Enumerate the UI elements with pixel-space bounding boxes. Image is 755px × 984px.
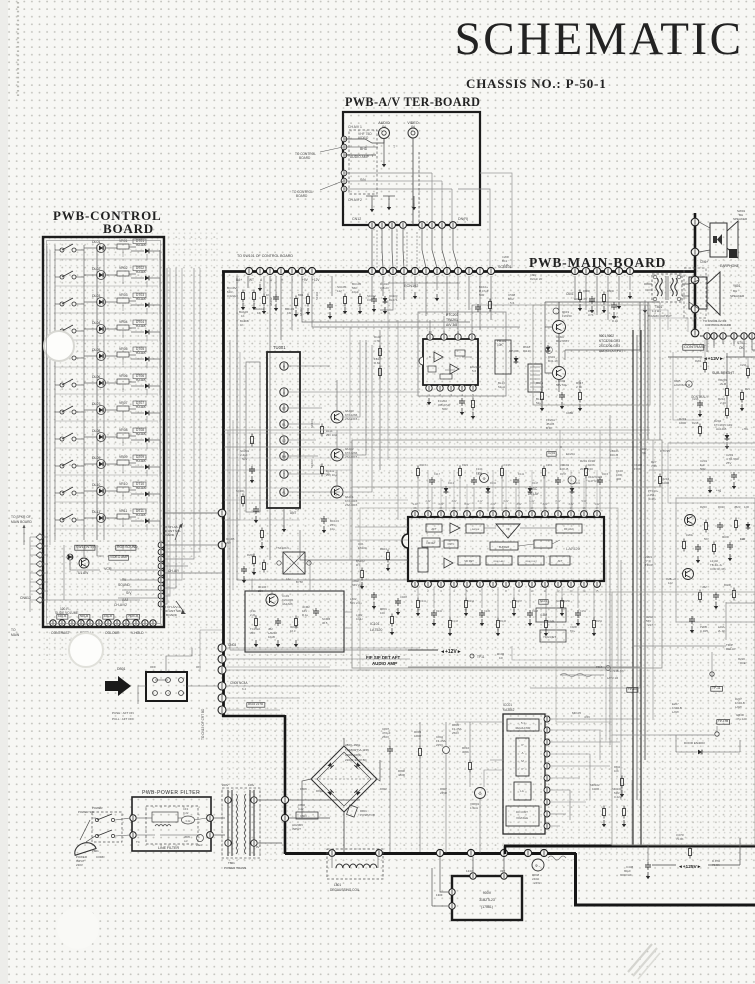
svg-text:480R: 480R (398, 773, 405, 777)
svg-text:SC104: SC104 (310, 419, 314, 428)
svg-text:100R: 100R (414, 734, 422, 738)
fuse R619 (553, 308, 559, 314)
svg-text:FB103: FB103 (358, 546, 367, 550)
transistor U1 A/V (79, 558, 89, 568)
capacitor 2A+R (197, 835, 204, 842)
svg-text:245R: 245R (440, 791, 447, 795)
svg-text:TD+: TD+ (570, 629, 576, 633)
svg-text:4.1V: 4.1V (478, 500, 483, 503)
svg-text:56V 50μ: 56V 50μ (556, 383, 568, 387)
svg-text:R02R: R02R (724, 583, 731, 587)
svg-text:1K: 1K (287, 311, 291, 315)
svg-text:C88R: C88R (566, 411, 573, 415)
transistor Q601 (553, 321, 566, 334)
svg-text:L/2W 13: L/2W 13 (607, 676, 618, 680)
svg-text:C216: C216 (692, 397, 699, 401)
svg-text:SC2R1: SC2R1 (236, 489, 245, 493)
main board lower-left edge (284, 715, 287, 854)
transistor Q602 (553, 367, 566, 380)
svg-text:280V~396L: 280V~396L (345, 743, 361, 747)
svg-text:DOOR EN4003: DOOR EN4003 (684, 741, 705, 745)
bottom right extra wires (612, 734, 715, 736)
svg-text:40R: 40R (616, 477, 621, 481)
svg-text:R24μF 2R: R24μF 2R (530, 277, 542, 281)
svg-text:VR05: VR05 (119, 347, 128, 351)
svg-text:MAIN BOARD: MAIN BOARD (11, 520, 33, 524)
svg-text:16.3: 16.3 (290, 629, 296, 633)
bridge dashed center line (311, 778, 377, 780)
svg-text:T4: T4 (136, 840, 140, 844)
svg-text:TP-1: TP-1 (476, 471, 483, 475)
svg-text:TO: TO (11, 628, 16, 632)
svg-text:VR03: VR03 (119, 293, 128, 297)
svg-text:9001,9002: 9001,9002 (599, 334, 614, 338)
svg-text:VR09: VR09 (119, 455, 128, 459)
thick bus right descent (574, 853, 577, 906)
wires DB01 (166, 648, 192, 672)
svg-text:C1R8: C1R8 (400, 595, 407, 599)
svg-text:C601: C601 (566, 292, 574, 296)
sync cluster components (705, 520, 707, 523)
svg-text:2SA1015: 2SA1015 (345, 455, 358, 459)
svg-text:TP11: TP11 (477, 655, 485, 659)
svg-text:0.9V: 0.9V (465, 503, 470, 506)
svg-text:3.9V: 3.9V (517, 503, 522, 506)
svg-text:RF AGC: RF AGC (564, 527, 574, 531)
grounds inside A/V board (371, 205, 373, 209)
control board inner rails (96, 245, 98, 540)
svg-text:POSISTOR: POSISTOR (360, 813, 375, 817)
dense components above IC (417, 466, 419, 469)
svg-text:10μ: 10μ (330, 527, 335, 531)
speaker Y601 (689, 277, 707, 309)
svg-text:2200F 30HV BC: 2200F 30HV BC (345, 758, 368, 762)
svg-text:6.2: 6.2 (242, 687, 247, 691)
mid horizontal bus wires (224, 429, 650, 431)
wires from IC801 pins (550, 718, 640, 720)
switch SW11 (60, 518, 64, 522)
transformer T801 secondary rail (249, 790, 251, 856)
svg-text:25V 10μ: 25V 10μ (326, 473, 337, 477)
control board bottom terminals (50, 620, 56, 626)
switch SW04 (60, 329, 64, 333)
svg-text:DL03: DL03 (92, 294, 100, 298)
svg-text:50V: 50V (242, 457, 247, 461)
svg-text:R201 103R: R201 103R (580, 459, 596, 463)
LA7520 left-side extra parts (387, 550, 389, 553)
svg-text:AL: AL (282, 490, 286, 494)
svg-text:R157: R157 (560, 472, 567, 476)
discriminator T102 (540, 630, 566, 642)
connector CCN101 row A (245, 267, 252, 274)
svg-text:124V: 124V (466, 869, 473, 873)
svg-text:MR-05: MR-05 (572, 711, 581, 715)
thick ground bus bottom (285, 852, 576, 855)
svg-text:900V/HF: 900V/HF (620, 873, 632, 877)
bridge diodes (327, 762, 333, 768)
svg-text:B: B (283, 364, 285, 368)
svg-text:D806: D806 (300, 787, 307, 791)
LED DL12 (67, 554, 73, 560)
wire arrow to main board (23, 526, 25, 545)
svg-text:112: 112 (337, 289, 342, 293)
svg-text:100R: 100R (662, 481, 670, 485)
LA7520 bottom pins (412, 581, 419, 588)
thick bus upper branch (504, 845, 755, 848)
filter internal leads (137, 817, 152, 819)
audio section gray frame (533, 305, 650, 405)
svg-text:C.1R5: C.1R5 (700, 629, 708, 633)
pot R848 on bus (532, 859, 544, 871)
long wires to LA7520 region (300, 530, 408, 560)
wires bus to jacks (699, 222, 710, 228)
svg-text:A/V 3/8: A/V 3/8 (446, 323, 457, 327)
svg-text:R147: R147 (532, 481, 539, 485)
filter pins (130, 815, 136, 821)
vertical bus wires center (379, 330, 381, 470)
svg-text:TS1800(T)A-1156: TS1800(T)A-1156 (345, 748, 369, 752)
IC801 outline (503, 714, 545, 834)
svg-text:ANT: ANT (290, 511, 296, 515)
IC801 right pins (544, 716, 550, 722)
svg-text:RELAY: RELAY (726, 647, 736, 651)
svg-text:900V: 900V (483, 891, 492, 895)
svg-text:10K: 10K (614, 769, 619, 773)
svg-text:M: M (688, 383, 690, 387)
svg-text:A: A (521, 751, 523, 755)
svg-text:INPUT: INPUT (292, 827, 301, 831)
svg-text:Y601: Y601 (733, 284, 741, 288)
components row y560-580 left (253, 554, 255, 557)
switch SW08 (60, 437, 64, 441)
coil L601 big (495, 340, 511, 374)
wires RF box (251, 580, 253, 591)
wire +12V rail under IC (408, 666, 640, 668)
svg-text:4.7K: 4.7K (588, 313, 594, 317)
svg-text:R4.2K: R4.2K (523, 349, 531, 353)
RF box components (255, 616, 257, 619)
svg-text:10K: 10K (497, 343, 504, 347)
svg-text:JBZ: JBZ (702, 585, 707, 589)
pins on board edge power (281, 796, 288, 803)
X201 bottom pins (426, 385, 432, 391)
svg-text:P: P (521, 743, 523, 747)
edge shading strip (0, 0, 8, 984)
transformer T801 primary rail (227, 790, 229, 856)
svg-text:ECN102: ECN102 (404, 284, 418, 288)
svg-text:3.4V: 3.4V (569, 503, 574, 506)
svg-text:50R: 50R (700, 467, 706, 471)
svg-text:C801+C8(4): C801+C8(4) (345, 753, 361, 757)
svg-text:R.62: R.62 (374, 361, 380, 365)
bridge rectifier D801 (311, 746, 377, 812)
left edge faint margin line (17, 2, 19, 98)
connector CN05 pins (218, 682, 226, 690)
svg-text:VIDEO AFC: VIDEO AFC (493, 560, 505, 563)
svg-text:(0.47μ: (0.47μ (648, 497, 656, 501)
components below LA7520 (417, 598, 419, 601)
svg-text:PUSH : AFT ON: PUSH : AFT ON (112, 711, 134, 715)
svg-text:R148: R148 (532, 610, 539, 613)
svg-text:R.1μ: R.1μ (302, 613, 308, 617)
main board top edge (222, 270, 695, 273)
svg-text:DL07: DL07 (92, 402, 100, 406)
svg-text:D802: D802 (380, 787, 387, 791)
svg-text:0.22: 0.22 (186, 820, 191, 823)
svg-text:5.1: 5.1 (521, 721, 525, 725)
transistor Q104 (331, 449, 343, 461)
svg-text:TP-11: TP-11 (712, 686, 721, 690)
transformer T801 dashed frame (222, 788, 260, 858)
svg-text:2.2K: 2.2K (720, 401, 726, 405)
svg-text:DB01: DB01 (117, 667, 126, 671)
svg-text:TU001: TU001 (273, 345, 286, 350)
svg-text:BOARD: BOARD (103, 221, 154, 236)
svg-text:LINE FILTER: LINE FILTER (158, 846, 180, 850)
boxed label CONTRAST (683, 345, 704, 351)
svg-text:AUDIO AMP: AUDIO AMP (372, 661, 397, 666)
svg-text:R601 217R: R601 217R (248, 702, 264, 706)
svg-text:9V: 9V (256, 845, 260, 849)
svg-text:2SA1015: 2SA1015 (345, 417, 358, 421)
wires right column (726, 353, 728, 386)
pins on audio bus (691, 218, 699, 226)
svg-text:V-HOLD: V-HOLD (131, 631, 144, 635)
svg-text:R142: R142 (436, 610, 443, 613)
svg-text:VR01: VR01 (119, 239, 128, 243)
svg-text:3.8V: 3.8V (452, 500, 457, 503)
svg-text:WT: WT (249, 278, 254, 282)
svg-text:R121: R121 (462, 463, 469, 467)
svg-text:QB-2V: QB-2V (380, 286, 389, 290)
wires descending from rows (236, 276, 238, 350)
svg-text:500-R: 500-R (80, 614, 89, 618)
svg-text:TO CN15 OF CRT BD: TO CN15 OF CRT BD (201, 708, 205, 740)
svg-text:ICC01: ICC01 (503, 703, 512, 707)
svg-text:5.6: 5.6 (472, 369, 477, 373)
boxed TP-10 (627, 688, 638, 693)
svg-text:R604: R604 (588, 309, 595, 313)
svg-text:Φ: Φ (478, 791, 481, 796)
contrast feed wires (673, 352, 700, 420)
A/V board wiring (345, 139, 384, 143)
svg-text:BOARD: BOARD (166, 613, 178, 617)
svg-text:C2R: C2R (740, 537, 745, 541)
svg-text:DEGAUSSING COIL: DEGAUSSING COIL (330, 888, 360, 892)
svg-text:TRUP: TRUP (645, 563, 653, 567)
svg-text:TO SW101 OF CONTROL BOARD: TO SW101 OF CONTROL BOARD (237, 254, 293, 258)
svg-text:100R: 100R (679, 421, 687, 425)
sync cluster frame (676, 498, 755, 622)
svg-text:6.2V: 6.2V (504, 500, 509, 503)
switch DB01 body (146, 672, 187, 701)
svg-text:47μ 1AF: 47μ 1AF (736, 717, 747, 721)
svg-text:250V: 250V (452, 731, 459, 735)
svg-text:SW1 ENTER: SW1 ENTER (76, 545, 96, 549)
gray wire trip relay (632, 645, 726, 647)
control board LED bus (83, 245, 85, 540)
svg-text:10μF: 10μF (352, 290, 359, 294)
svg-text:LA: LA (286, 577, 290, 581)
bus line y433 (224, 432, 650, 434)
A/V board outline (343, 112, 480, 225)
svg-text:24W: 24W (534, 881, 540, 885)
wires tuner pins to right (289, 365, 330, 367)
switch SW05 (60, 356, 64, 360)
svg-text:DL09: DL09 (92, 456, 100, 460)
transistor Q105 (331, 486, 343, 498)
svg-text:R131: R131 (490, 481, 497, 485)
svg-text:LG: LG (282, 438, 287, 442)
svg-text:50R: 50R (479, 293, 484, 297)
svg-text:HA141B: HA141B (716, 427, 727, 431)
svg-text:DL08: DL08 (92, 429, 100, 433)
svg-text:L/2: L/2 (184, 839, 188, 843)
svg-text:BUFFER: BUFFER (499, 546, 509, 549)
transformer T601 (652, 274, 682, 302)
svg-text:SCHEMATIC: SCHEMATIC (455, 13, 744, 65)
svg-text:LA7520: LA7520 (566, 546, 581, 551)
wires 900V box (440, 857, 448, 892)
wires below control-link row (706, 340, 708, 352)
svg-text:10K-B: 10K-B (560, 467, 568, 471)
left mid vertical bundle (227, 430, 229, 560)
degauss plugs (329, 850, 336, 857)
svg-text:C145: C145 (484, 610, 491, 613)
svg-text:VR07: VR07 (119, 401, 128, 405)
svg-text:35V: 35V (250, 631, 255, 635)
svg-text:IC101: IC101 (370, 622, 380, 626)
svg-text:CH-A/V2: CH-A/V2 (114, 603, 127, 607)
svg-text:225V: 225V (436, 743, 443, 747)
svg-text:F73K: F73K (634, 467, 641, 471)
punch hole bottom (57, 907, 99, 949)
svg-text:BY58: BY58 (296, 580, 303, 584)
svg-text:BHD: BHD (360, 147, 368, 151)
control board outline (43, 237, 164, 627)
svg-text:SF102: SF102 (315, 291, 319, 300)
svg-text:AUDIO AMP: AUDIO AMP (350, 155, 370, 159)
svg-text:AFT: AFT (558, 560, 563, 563)
svg-text:2SC3206-GR3: 2SC3206-GR3 (599, 344, 620, 348)
svg-text:U1 A/V: U1 A/V (78, 571, 89, 575)
connector CN612 pin column (36, 534, 44, 540)
svg-text:STILL: STILL (737, 341, 746, 345)
diode D601 (547, 345, 549, 347)
svg-text:TFA201: TFA201 (446, 318, 458, 322)
svg-text:1.2kΩ: 1.2kΩ (470, 806, 479, 810)
svg-text:0.22: 0.22 (183, 811, 189, 815)
wire down to TP-11 (711, 652, 713, 680)
IF section frame (352, 440, 662, 668)
arrow down-right (176, 601, 184, 612)
svg-text:AGC: AGC (530, 487, 538, 491)
punch hole top (44, 331, 74, 361)
svg-text:PWB-A/V TER-BOARD: PWB-A/V TER-BOARD (345, 95, 480, 109)
boxed TP-11 (711, 686, 723, 691)
svg-text:R.1μ: R.1μ (612, 319, 618, 323)
svg-text:IN: IN (382, 125, 386, 129)
svg-text:D113: D113 (448, 481, 455, 485)
pot boxes above terminals (57, 615, 68, 620)
tuner antenna terminal (283, 508, 285, 525)
svg-text:VIDEO AMP: VIDEO AMP (110, 555, 129, 559)
svg-text:4.7K: 4.7K (374, 339, 380, 343)
wires filter-transformer (214, 817, 225, 819)
svg-text:CONTRAST: CONTRAST (684, 344, 707, 349)
crystal X201b (547, 452, 556, 457)
svg-text:VIDEO DET: VIDEO DET (525, 561, 537, 563)
svg-text:BL: BL (282, 422, 286, 426)
svg-text:CH A/V 1: CH A/V 1 (348, 125, 362, 129)
svg-text:2.3V: 2.3V (426, 500, 431, 503)
op-amp U201 box (423, 339, 478, 385)
gray routing wires center (224, 519, 300, 521)
svg-text:R21: R21 (745, 387, 750, 391)
svg-text:VR11: VR11 (119, 509, 127, 513)
svg-text:L/2W 82R: L/2W 82R (674, 383, 687, 387)
svg-text:C151: C151 (546, 463, 553, 467)
connector row C (571, 267, 578, 274)
svg-text:1.9V: 1.9V (595, 503, 600, 506)
svg-text:D: D (560, 445, 562, 449)
svg-text:JB23: JB23 (734, 505, 741, 509)
svg-text:JB05: JB05 (184, 835, 190, 839)
svg-text:R020: R020 (718, 505, 725, 509)
svg-text:R0E: R0E (740, 661, 746, 665)
svg-text:9C1R5: 9C1R5 (226, 537, 235, 541)
pins on ground bus (436, 849, 443, 856)
connector ECN102 row B (368, 267, 375, 274)
svg-text:DL04: DL04 (92, 321, 100, 325)
svg-text:P TP15: P TP15 (660, 449, 670, 453)
svg-text:D147: D147 (516, 600, 523, 603)
svg-text:IN: IN (411, 125, 415, 129)
svg-text:TP-17B: TP-17B (718, 719, 728, 723)
svg-text:100R: 100R (592, 787, 600, 791)
svg-text:EARPHONE: EARPHONE (720, 264, 740, 268)
switch SW09 (60, 464, 64, 468)
svg-text:VCR: VCR (104, 567, 112, 571)
svg-text:CN03: CN03 (228, 643, 236, 647)
cluster lower components (699, 590, 701, 593)
svg-text:DP406: DP406 (509, 349, 519, 353)
control board inner border (47, 241, 161, 624)
svg-text:S.4V: S.4V (412, 503, 418, 506)
svg-text:D141: D141 (518, 472, 525, 476)
PAMP block (516, 738, 529, 776)
svg-text:CH-A/Y: CH-A/Y (168, 569, 180, 573)
svg-text:T: T (283, 472, 285, 476)
svg-text:VIF: VIF (506, 528, 510, 531)
DC control block (506, 806, 539, 826)
svg-text:BR1: BR1 (298, 293, 304, 297)
svg-text:B:: B: (429, 356, 432, 359)
boxed TP-17B (717, 720, 730, 725)
main board left edge (222, 271, 225, 716)
VIDEO AMP block (109, 555, 129, 560)
latch block (514, 782, 531, 800)
svg-text:5.6: 5.6 (510, 301, 515, 305)
wire y500 into IF frame (224, 499, 352, 501)
A/V board bottom pins CN12 (369, 222, 376, 229)
gray frame lower right (612, 592, 755, 845)
svg-text:1K: 1K (240, 323, 244, 327)
arrow up (175, 524, 181, 540)
wire y488 segment (224, 487, 300, 489)
svg-text:CN6+: CN6+ (700, 260, 708, 264)
bottom strip of IF frame (530, 668, 640, 688)
